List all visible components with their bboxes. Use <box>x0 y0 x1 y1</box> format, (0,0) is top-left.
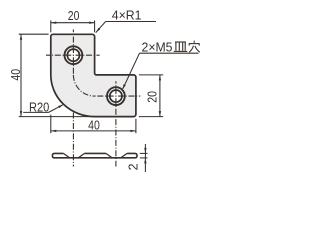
dim thickness 2 extension line bottom <box>140 157 148 159</box>
dim bottom 40 arrow right <box>130 130 136 132</box>
hole H1 drill inner circle <box>67 49 79 61</box>
dim bottom 40 extension line right <box>135 119 137 133</box>
dim bottom 40 arrow left <box>51 130 57 132</box>
dim left 40 extension line bottom <box>19 116 94 118</box>
dim thickness 2 arrow up (below) <box>144 158 146 164</box>
dim thickness 2 extension line top <box>140 152 148 154</box>
svg-text:40: 40 <box>88 118 100 133</box>
svg-text:20: 20 <box>68 8 80 23</box>
hole H1 countersink outer circle <box>65 46 83 64</box>
dim thickness 2 dimension line <box>144 144 146 172</box>
svg-text:2: 2 <box>126 163 140 170</box>
dim top 20 extension line right <box>94 20 96 32</box>
label R20 leader <box>49 105 63 113</box>
dim right 20 arrow down <box>159 111 161 117</box>
svg-text:40: 40 <box>9 69 23 81</box>
centerline H1 horizontal <box>46 54 100 56</box>
label 4xR1 leader <box>96 22 106 33</box>
kanji ana (hole) strokes <box>189 41 200 53</box>
side view countersink V at H1 <box>63 153 84 157</box>
centerline H1 vertical lower segment to side view <box>72 113 74 167</box>
centerline H2 vertical through side view <box>115 81 117 166</box>
hole H2 drill inner circle <box>110 90 122 102</box>
centerline strip arc dash-dot <box>73 75 94 96</box>
svg-text:20: 20 <box>146 91 160 103</box>
side view countersink V at H2 <box>106 153 127 157</box>
svg-text:2×M5: 2×M5 <box>142 40 173 54</box>
label 2xM5 leader <box>123 53 140 89</box>
dim left 40 arrow up <box>20 34 22 40</box>
dim thickness 2 arrow down (above) <box>144 148 146 154</box>
dim right 20 arrow up <box>159 75 161 81</box>
svg-text:4×R1: 4×R1 <box>112 9 142 23</box>
dim left 40 dimension line <box>20 34 22 116</box>
hole H2 countersink outer circle <box>107 87 125 105</box>
kanji sara (dish) strokes <box>174 42 188 51</box>
centerline H2 horizontal <box>95 95 141 97</box>
dim right 20 dimension line <box>159 75 161 117</box>
dim top 20 arrow right <box>89 22 95 24</box>
label 2xM5 underline <box>140 52 199 54</box>
dim top 20 extension line left <box>50 20 52 32</box>
dim left 40 arrow down <box>20 111 22 117</box>
label 2xM5 leader arrow <box>122 84 125 90</box>
label R20 underline <box>23 111 48 113</box>
dim top 20 dimension line <box>51 22 95 24</box>
label R20 leader arrow <box>58 104 63 108</box>
dim right 20 extension line bottom <box>139 116 163 118</box>
label 4xR1 underline <box>106 21 156 23</box>
side view plate outline <box>52 153 137 157</box>
part body L-shaped plate with R20 outer fillet <box>51 34 136 116</box>
dim top 20 arrow left <box>51 22 57 24</box>
dim right 20 extension line top <box>139 74 163 76</box>
label 4xR1 leader arrow <box>96 28 101 33</box>
dim bottom 40 extension line left <box>50 115 52 134</box>
dim bottom 40 dimension line <box>51 130 136 132</box>
dim left 40 extension line top <box>19 33 49 35</box>
centerline H1 vertical <box>72 30 74 77</box>
